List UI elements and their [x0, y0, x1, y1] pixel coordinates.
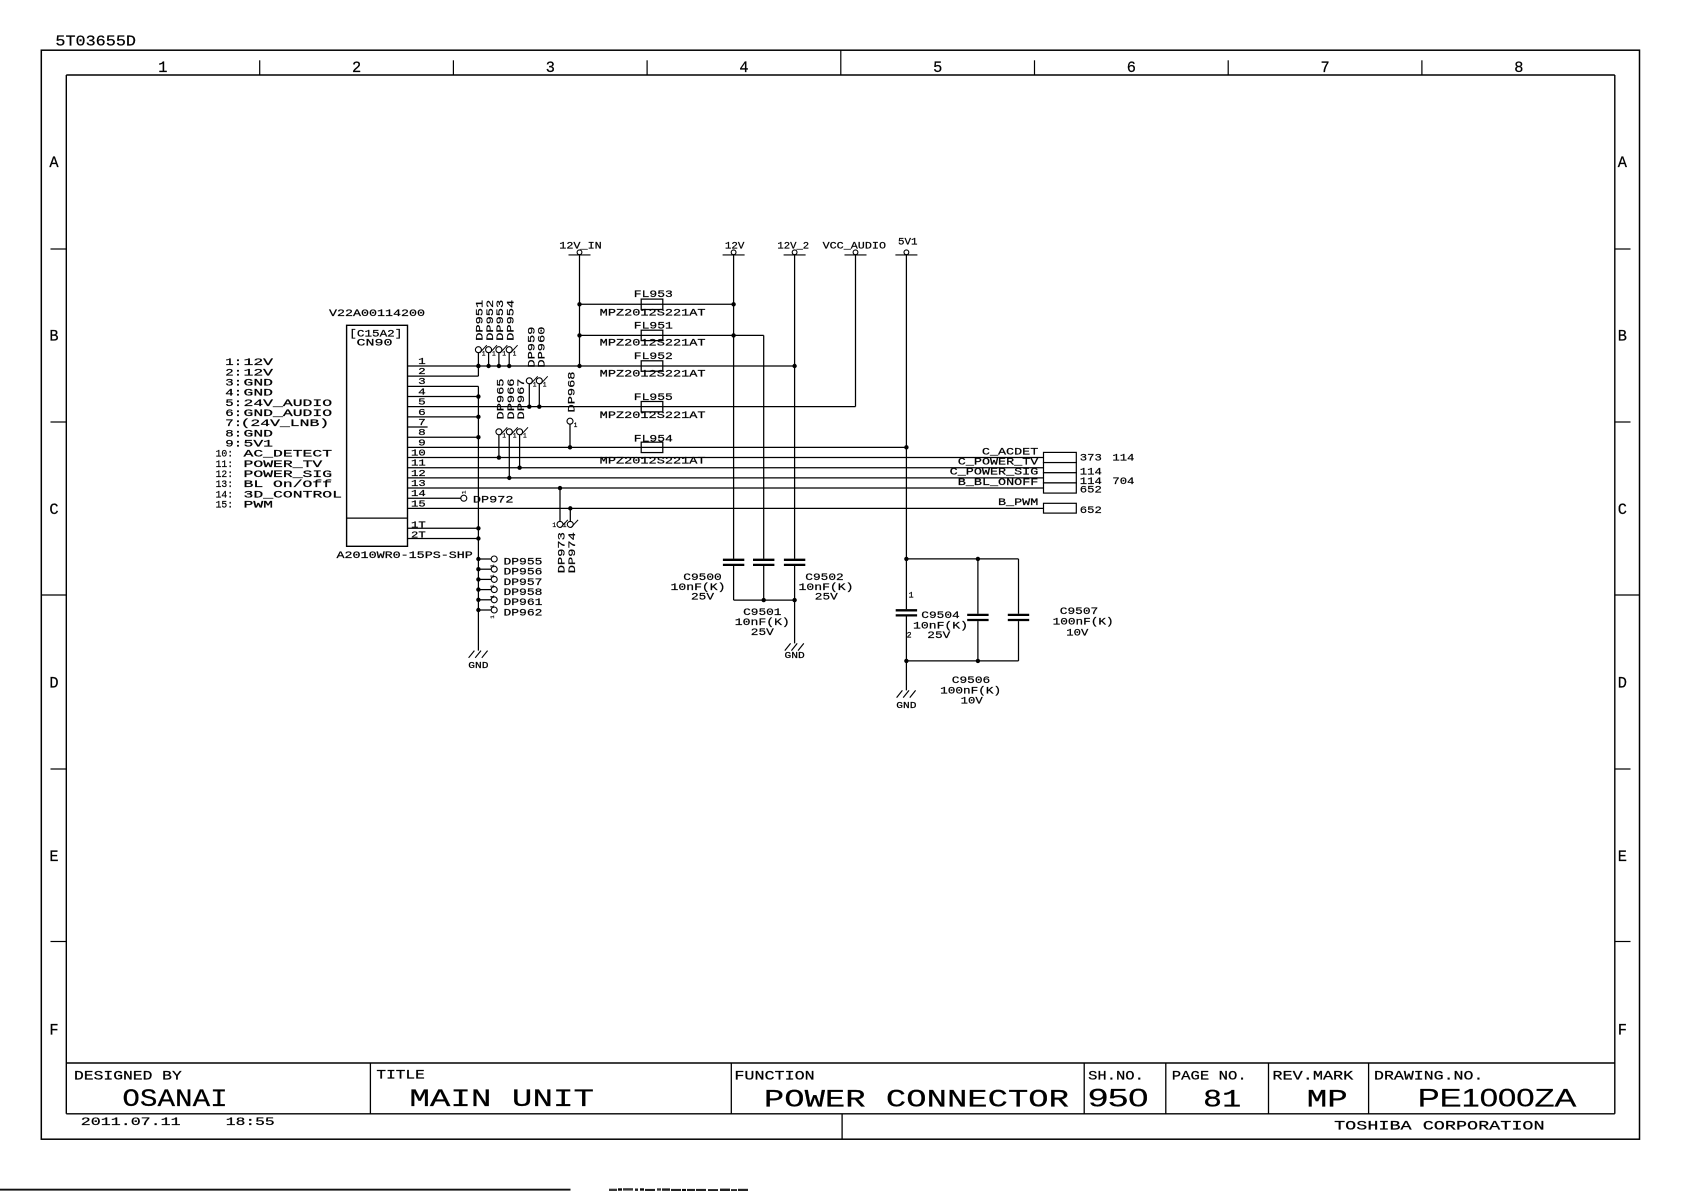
svg-text:FL951: FL951 — [634, 321, 673, 333]
jumper pad DP953 — [496, 347, 502, 353]
svg-text:25V: 25V — [691, 591, 715, 603]
connector CN90 internal divider — [347, 517, 408, 519]
wire 5V1 stem down to C9504 — [905, 255, 907, 609]
svg-text:15:: 15: — [216, 499, 233, 510]
inner border left — [65, 75, 67, 1114]
row tick right — [1615, 421, 1631, 423]
svg-text:A2010WR0-15PS-SHP: A2010WR0-15PS-SHP — [337, 550, 473, 562]
svg-text:1: 1 — [502, 350, 506, 357]
svg-text:25V: 25V — [751, 627, 775, 639]
jumper pad DP961 — [491, 597, 497, 603]
svg-text:GND: GND — [468, 660, 489, 671]
jumper pad DP957 — [491, 576, 497, 582]
jumper pad DP952 — [486, 347, 492, 353]
svg-text:B: B — [1618, 328, 1627, 346]
bottom edge artifact text noise — [609, 1188, 748, 1191]
connector CN90 body — [347, 325, 408, 546]
svg-text:A: A — [1618, 154, 1628, 172]
junction DP965 — [497, 455, 501, 459]
svg-text:652: 652 — [1080, 505, 1102, 517]
svg-text:DP972: DP972 — [473, 495, 514, 507]
jumper pad DP951 — [475, 347, 481, 353]
column tick — [1421, 60, 1423, 75]
svg-text:18:55: 18:55 — [226, 1117, 275, 1129]
junction pin8/bus — [476, 435, 480, 439]
wire pin10 AC_DETECT — [408, 457, 1044, 459]
ferrite bead FL954 MPZ2012S221AT — [641, 442, 663, 452]
junction DP973 — [558, 486, 562, 490]
jumper pad DP954 — [506, 347, 512, 353]
wire to DP956 — [478, 568, 491, 570]
wire C9507 top lead — [1018, 559, 1020, 614]
title block divider — [1165, 1063, 1167, 1114]
svg-text:DP968: DP968 — [567, 372, 579, 413]
bottom edge scan bar — [0, 1189, 571, 1191]
svg-text:CN90: CN90 — [357, 338, 393, 350]
svg-text:FL954: FL954 — [634, 433, 673, 445]
wire bottom rail to GND — [905, 661, 907, 691]
wire pin14 3D_CONTROL to DP972 — [408, 497, 461, 499]
junction DP966 — [507, 476, 511, 480]
svg-text:PWM: PWM — [244, 499, 274, 510]
svg-text:MPZ2012S221AT: MPZ2012S221AT — [600, 455, 706, 467]
svg-text:114: 114 — [1112, 452, 1134, 464]
junction DP951/pin1 — [476, 364, 480, 368]
page-ref box 2 — [1044, 463, 1077, 473]
row tick left — [51, 421, 67, 423]
svg-text:DP974: DP974 — [567, 532, 579, 573]
svg-text:B_BL_ONOFF: B_BL_ONOFF — [958, 477, 1039, 489]
svg-text:2011.07.11: 2011.07.11 — [81, 1117, 181, 1129]
junction DP974 — [568, 506, 572, 510]
svg-text:7: 7 — [1321, 59, 1330, 77]
wire pin15 PWM — [408, 507, 1044, 509]
svg-text:B_PWM: B_PWM — [998, 497, 1038, 509]
svg-text:V22A00114200: V22A00114200 — [329, 308, 425, 320]
wire pin2 riser to pin1 — [477, 366, 479, 376]
svg-text:F: F — [49, 1022, 58, 1040]
capacitor C9500 — [723, 559, 744, 561]
junction DP960/pin5 — [537, 404, 541, 408]
jumper pad DP955 — [491, 556, 497, 562]
row tick left — [51, 248, 67, 250]
svg-text:950: 950 — [1088, 1085, 1148, 1112]
power flag VCC_AUDIO — [853, 250, 858, 255]
wire pin2 12V — [408, 375, 479, 377]
wire pin12 POWER_SIG — [408, 477, 1044, 479]
svg-text:2: 2 — [907, 632, 912, 641]
junction pin4/bus — [476, 394, 480, 398]
column tick — [452, 60, 454, 75]
junction DP959/pin5 — [527, 404, 531, 408]
row tick left — [51, 768, 67, 770]
svg-text:25V: 25V — [927, 630, 951, 642]
svg-text:MPZ2012S221AT: MPZ2012S221AT — [600, 307, 706, 319]
junction bus/DP961 — [476, 598, 480, 602]
column tick — [259, 60, 261, 75]
svg-text:1: 1 — [502, 433, 506, 440]
svg-text:1: 1 — [482, 350, 486, 357]
title block divider — [1368, 1063, 1370, 1114]
junction pin6/bus — [476, 415, 480, 419]
wire 12V_2 stem down to C9502 — [794, 255, 796, 559]
wire C9506 top lead — [977, 559, 979, 614]
svg-text:OSANAI: OSANAI — [122, 1086, 227, 1114]
svg-text:MPZ2012S221AT: MPZ2012S221AT — [600, 368, 706, 380]
svg-text:D: D — [49, 675, 58, 693]
svg-text:12V: 12V — [725, 241, 745, 252]
column tick — [1227, 60, 1229, 75]
jumper pad DP968 — [567, 418, 573, 424]
wire pin3 GND — [408, 385, 479, 387]
wire to DP957 — [478, 578, 491, 580]
page-ref box 1 — [1044, 452, 1077, 462]
power flag 12V_IN — [577, 250, 582, 255]
wire DP973 — [559, 488, 561, 521]
wire DP952 to pin1 line — [488, 353, 490, 366]
wire DP967 — [519, 435, 521, 468]
wire to DP961 — [478, 599, 491, 601]
bottom strip divider — [841, 1114, 843, 1139]
wire pin8 GND — [408, 436, 479, 438]
svg-text:C: C — [49, 501, 58, 519]
junction pin1/pin2 — [476, 364, 480, 368]
junction 2T/bus — [476, 536, 480, 540]
svg-text:E: E — [49, 848, 58, 866]
svg-text:FL955: FL955 — [634, 392, 673, 404]
svg-text:C: C — [1618, 501, 1627, 519]
jumper pad DP956 — [491, 566, 497, 572]
junction bus/DP956 — [476, 567, 480, 571]
page-ref box B_PWM — [1044, 503, 1077, 513]
svg-text:DP962: DP962 — [504, 607, 543, 619]
title block divider — [730, 1063, 732, 1114]
svg-text:15: 15 — [411, 498, 426, 509]
junction bottom rail/C9504 — [904, 659, 908, 663]
wire pin1 12V to FL952/12V_2 — [408, 365, 795, 367]
wire FL951 out down to C9501 — [763, 335, 765, 558]
svg-text:FL953: FL953 — [634, 289, 673, 301]
wire pin6 GND_AUDIO — [408, 416, 479, 418]
wire cap bottom lead — [733, 566, 735, 600]
svg-text:MPZ2012S221AT: MPZ2012S221AT — [600, 410, 706, 422]
wire DP951 to pin1 line — [477, 353, 479, 366]
wire rail to GND — [794, 600, 796, 643]
wire C9507 bottom lead — [1018, 621, 1020, 661]
wire DP960 to pin5 line — [538, 384, 540, 407]
svg-text:VCC_AUDIO: VCC_AUDIO — [823, 241, 886, 252]
wire cap group ground rail — [734, 599, 795, 601]
svg-text:2: 2 — [352, 59, 361, 77]
power flag 5V1 — [904, 250, 909, 255]
svg-text:SH.NO.: SH.NO. — [1088, 1069, 1144, 1084]
junction 12V_2/FL952 out — [792, 364, 796, 368]
power flag 12V — [731, 250, 736, 255]
svg-text:5V1: 5V1 — [898, 238, 918, 249]
ferrite bead FL951 MPZ2012S221AT — [641, 330, 663, 340]
ferrite bead FL953 MPZ2012S221AT — [641, 299, 663, 309]
svg-text:10V: 10V — [961, 695, 984, 707]
column tick — [646, 60, 648, 75]
svg-text:652: 652 — [1080, 485, 1102, 497]
svg-text:8: 8 — [1514, 59, 1523, 77]
row tick right center (full) — [1615, 594, 1640, 596]
svg-text:12V_2: 12V_2 — [777, 241, 809, 252]
svg-text:REV.MARK: REV.MARK — [1272, 1069, 1353, 1084]
capacitor C9506 — [967, 614, 988, 616]
svg-text:1: 1 — [909, 591, 914, 600]
svg-text:5T03655D: 5T03655D — [55, 34, 136, 50]
svg-text:1: 1 — [158, 59, 167, 77]
power flag 12V_2 — [792, 250, 797, 255]
svg-text:MP: MP — [1307, 1086, 1348, 1114]
row tick left center (full) — [41, 594, 66, 596]
wire 12V stem down to C9500 — [733, 255, 735, 559]
jumper pad DP962 — [491, 607, 497, 613]
svg-text:A: A — [49, 154, 59, 172]
title block divider — [1268, 1063, 1270, 1114]
wire pin13 BL On/Off — [408, 487, 1044, 489]
row tick right — [1615, 941, 1631, 943]
wire cap bottom lead — [763, 566, 765, 600]
junction 1T/bus — [476, 526, 480, 530]
junction 12V/FL951 out — [731, 333, 735, 337]
wire C9506 bottom lead — [977, 621, 979, 661]
ferrite bead FL955 MPZ2012S221AT — [641, 401, 663, 411]
inner border right — [1614, 75, 1616, 1114]
svg-text:25V: 25V — [815, 591, 839, 603]
svg-text:PAGE NO.: PAGE NO. — [1172, 1069, 1247, 1084]
ground GND (C9500 group) — [785, 643, 791, 650]
svg-text:1: 1 — [574, 422, 578, 429]
jumper pad DP972 — [461, 495, 467, 501]
junction 12V_IN/pin1 line — [577, 364, 581, 368]
wire pin11 POWER_TV — [408, 467, 1044, 469]
svg-text:F: F — [1618, 1022, 1627, 1040]
junction bus/DP955 — [476, 557, 480, 561]
junction DP954/pin1 — [507, 364, 511, 368]
title block frame — [66, 1062, 1615, 1064]
junction rail/C9506 — [976, 557, 980, 561]
svg-text:DRAWING.NO.: DRAWING.NO. — [1374, 1069, 1483, 1084]
svg-text:DP967: DP967 — [516, 379, 528, 420]
junction 12V_IN/FL953 — [577, 302, 581, 306]
svg-text:5: 5 — [933, 59, 942, 77]
svg-text:10V: 10V — [1066, 627, 1089, 639]
row tick right — [1615, 248, 1631, 250]
jumper pad DP960 — [536, 378, 542, 384]
ground GND (pin bus) — [469, 651, 475, 658]
jumper pad DP967 — [517, 429, 523, 435]
jumper pad DP965 — [496, 429, 502, 435]
junction DP953/pin1 — [497, 364, 501, 368]
wire DP954 to pin1 line — [508, 353, 510, 366]
title block divider — [369, 1063, 371, 1114]
GND bus vertical — [477, 386, 479, 650]
title block divider — [1083, 1063, 1085, 1114]
capacitor C9504 — [896, 609, 917, 611]
wire DP974 — [569, 508, 571, 521]
row tick right — [1615, 768, 1631, 770]
wire DP965 — [498, 435, 500, 458]
inner border top — [66, 74, 1615, 76]
ferrite bead FL952 MPZ2012S221AT — [641, 361, 663, 371]
svg-text:MAIN UNIT: MAIN UNIT — [409, 1086, 594, 1114]
capacitor C9502 — [784, 559, 805, 561]
junction 12V/FL953 out — [731, 302, 735, 306]
wire pin4 GND — [408, 396, 479, 398]
svg-text:6: 6 — [1127, 59, 1136, 77]
wire to DP958 — [478, 589, 491, 591]
jumper pad DP966 — [506, 429, 512, 435]
svg-text:81: 81 — [1203, 1086, 1241, 1114]
svg-text:B: B — [49, 328, 58, 346]
junction 5V1/C-rail — [904, 557, 908, 561]
capacitor C9501 — [753, 559, 774, 561]
svg-text:DP954: DP954 — [505, 300, 517, 341]
junction bus/DP962 — [476, 608, 480, 612]
svg-text:4: 4 — [739, 59, 748, 77]
svg-text:1: 1 — [533, 382, 537, 389]
ground GND (C9504 group) — [897, 690, 903, 697]
junction bus/DP957 — [476, 577, 480, 581]
wire DP953 to pin1 line — [498, 353, 500, 366]
wire pin 1T — [408, 527, 479, 529]
svg-text:PE1000ZA: PE1000ZA — [1418, 1085, 1577, 1112]
svg-text:E: E — [1618, 848, 1627, 866]
junction C9501/rail — [762, 598, 766, 602]
junction bus/DP958 — [476, 587, 480, 591]
junction C9502/rail — [792, 598, 796, 602]
svg-text:D: D — [1618, 675, 1627, 693]
svg-text:1: 1 — [492, 350, 496, 357]
wire 5V1 cap rail top — [906, 558, 1018, 560]
junction 12V_IN/FL951 — [577, 333, 581, 337]
page-ref box 4 — [1044, 483, 1077, 493]
wire pin5 24V_AUDIO to FL955 — [408, 406, 856, 408]
wire pin9 5V1 to FL954 — [408, 446, 907, 448]
wire DP966 — [508, 435, 510, 478]
junction 5V1/FL954 out — [904, 445, 908, 449]
svg-text:1: 1 — [543, 382, 547, 389]
row tick left — [51, 941, 67, 943]
wire pin7 (24V_LNB) stub — [408, 426, 428, 428]
page-ref box 3 — [1044, 473, 1077, 483]
junction DP952/pin1 — [486, 364, 490, 368]
jumper pad DP958 — [491, 587, 497, 593]
svg-text:MPZ2012S221AT: MPZ2012S221AT — [600, 338, 706, 350]
svg-text:GND: GND — [896, 700, 917, 711]
svg-text:FL952: FL952 — [634, 351, 673, 363]
svg-text:POWER CONNECTOR: POWER CONNECTOR — [764, 1087, 1069, 1115]
junction DP967 — [517, 466, 521, 470]
svg-text:TOSHIBA CORPORATION: TOSHIBA CORPORATION — [1334, 1119, 1545, 1134]
svg-text:FUNCTION: FUNCTION — [734, 1069, 814, 1084]
jumper pad DP959 — [526, 378, 532, 384]
wire FL951 line — [580, 334, 764, 336]
junction bottom rail/C9506 — [976, 659, 980, 663]
svg-text:3: 3 — [546, 59, 555, 77]
wire to DP962 — [478, 609, 491, 611]
svg-text:1: 1 — [563, 522, 567, 529]
svg-text:DP960: DP960 — [536, 327, 548, 368]
svg-text:DESIGNED BY: DESIGNED BY — [74, 1068, 182, 1083]
wire 12V_IN stem — [579, 255, 581, 366]
capacitor C9507 — [1008, 614, 1029, 616]
svg-text:GND: GND — [785, 650, 806, 661]
wire C9504 bottom lead — [905, 617, 907, 661]
wire cap bottom lead — [794, 566, 796, 600]
column tick — [1034, 60, 1036, 75]
svg-text:12V_IN: 12V_IN — [559, 241, 602, 252]
jumper pad DP974 — [567, 521, 573, 527]
svg-text:1: 1 — [552, 522, 556, 529]
wire 5V1 cap rail bottom — [906, 660, 1018, 662]
jumper pad DP973 — [557, 521, 563, 527]
svg-text:1: 1 — [513, 350, 517, 357]
wire VCC_AUDIO stem to FL955 out — [855, 255, 857, 407]
wire DP959 to pin5 line — [528, 384, 530, 407]
junction DP968/pin9 — [568, 445, 572, 449]
wire FL953 line — [580, 303, 734, 305]
svg-text:TITLE: TITLE — [376, 1068, 425, 1083]
svg-text:373: 373 — [1080, 452, 1102, 464]
svg-text:1: 1 — [513, 433, 517, 440]
wire pin 2T — [408, 538, 479, 540]
wire DP968 to pin9 — [569, 424, 571, 447]
wire to DP955 — [478, 558, 491, 560]
svg-text:1: 1 — [523, 433, 527, 440]
column tick center (full) — [840, 50, 842, 75]
svg-text:704: 704 — [1112, 476, 1134, 488]
